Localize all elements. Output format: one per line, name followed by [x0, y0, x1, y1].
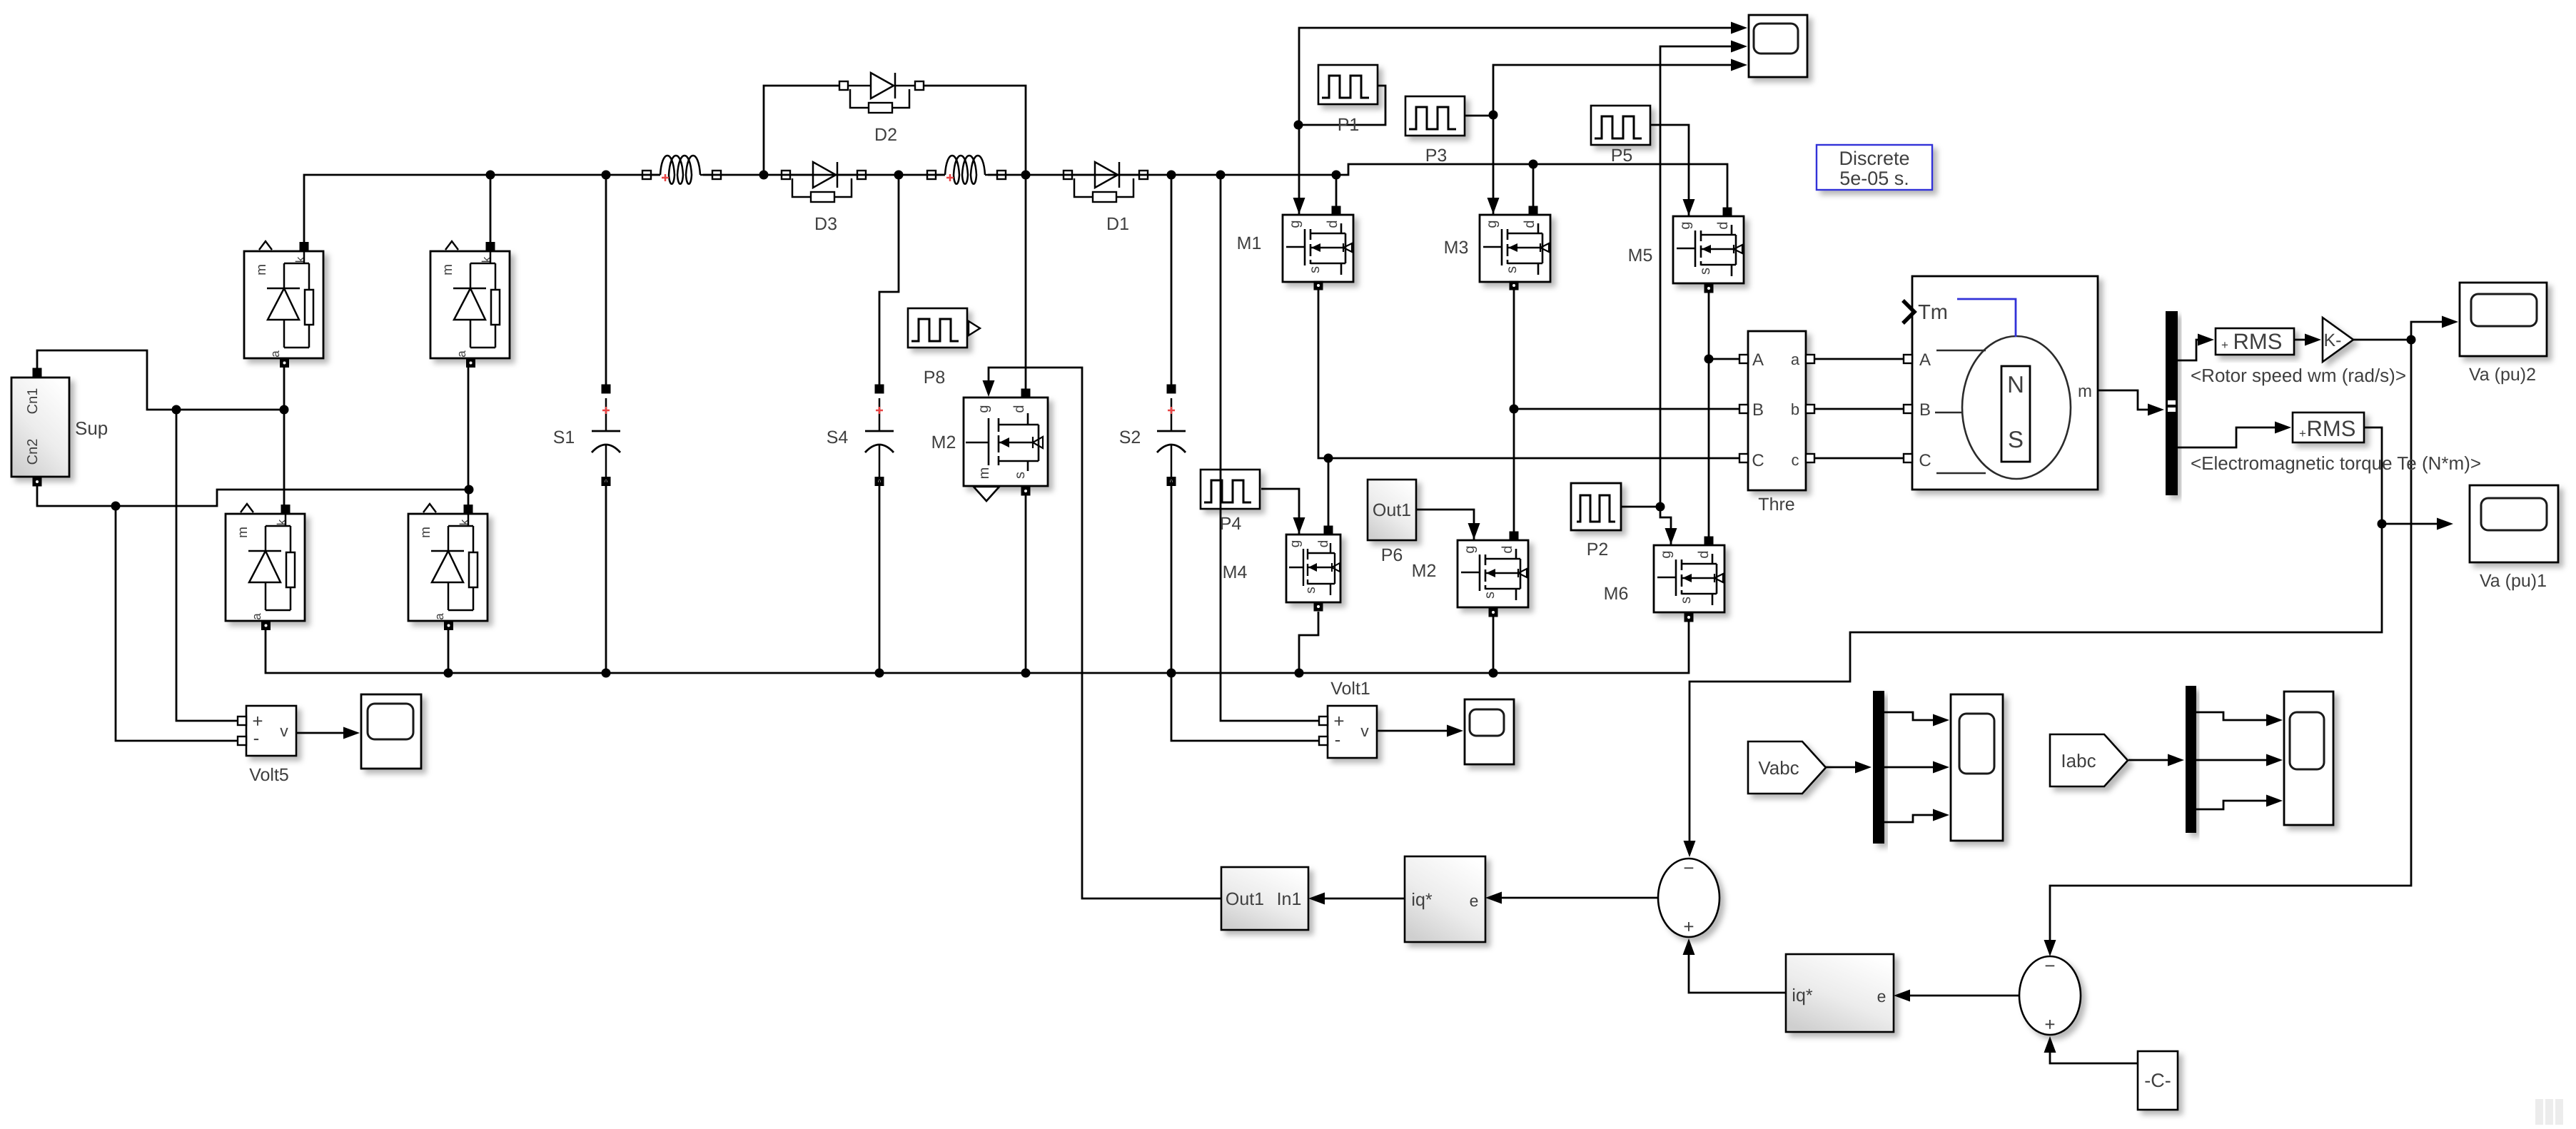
- svg-text:M4: M4: [1223, 562, 1248, 582]
- svg-text:s: s: [1012, 472, 1028, 479]
- svg-text:g: g: [1288, 540, 1303, 548]
- svg-text:D2: D2: [874, 125, 897, 145]
- svg-text:v: v: [280, 722, 288, 740]
- svg-text:S2: S2: [1119, 427, 1141, 447]
- svg-text:Va (pu)2: Va (pu)2: [2469, 365, 2536, 385]
- svg-text:s: s: [1303, 587, 1318, 594]
- svg-text:A: A: [1752, 350, 1764, 370]
- svg-text:+: +: [2221, 338, 2228, 352]
- svg-text:B: B: [1919, 400, 1931, 420]
- svg-text:5e-05 s.: 5e-05 s.: [1839, 168, 1909, 189]
- svg-text:K-: K-: [2324, 330, 2342, 350]
- svg-text:P8: P8: [924, 368, 946, 388]
- svg-text:P2: P2: [1587, 540, 1609, 560]
- svg-text:D3: D3: [814, 214, 837, 234]
- svg-text:A: A: [1919, 350, 1931, 370]
- svg-text:M1: M1: [1237, 233, 1262, 253]
- svg-text:P6: P6: [1381, 545, 1403, 565]
- svg-text:S1: S1: [553, 427, 575, 447]
- svg-text:g: g: [976, 405, 991, 412]
- svg-text:Out1: Out1: [1373, 500, 1411, 520]
- svg-text:e: e: [1877, 987, 1886, 1006]
- svg-text:M3: M3: [1444, 238, 1469, 258]
- svg-text:<Rotor speed wm (rad/s)>: <Rotor speed wm (rad/s)>: [2191, 365, 2406, 386]
- svg-text:M5: M5: [1628, 245, 1653, 265]
- svg-text:RMS: RMS: [2233, 329, 2283, 354]
- svg-text:P3: P3: [1425, 146, 1448, 166]
- svg-text:C: C: [1752, 451, 1764, 470]
- svg-text:-: -: [1335, 729, 1341, 750]
- svg-text:Tm: Tm: [1918, 301, 1948, 324]
- svg-text:Cn2: Cn2: [25, 439, 41, 465]
- svg-text:c: c: [1792, 451, 1799, 469]
- svg-text:e: e: [1470, 891, 1479, 910]
- svg-text:d: d: [1011, 405, 1027, 412]
- svg-text:m: m: [2078, 382, 2092, 401]
- svg-text:C: C: [1919, 451, 1931, 470]
- svg-text:-C-: -C-: [2144, 1070, 2171, 1091]
- svg-text:M2: M2: [931, 432, 956, 452]
- svg-text:P5: P5: [1611, 146, 1633, 166]
- svg-text:+: +: [2299, 427, 2306, 440]
- svg-text:Volt5: Volt5: [249, 765, 289, 785]
- svg-text:iq*: iq*: [1411, 890, 1432, 910]
- svg-text:Sup: Sup: [75, 417, 108, 439]
- svg-text:M2: M2: [1412, 561, 1437, 581]
- svg-text:a: a: [1791, 350, 1800, 368]
- svg-text:B: B: [1752, 400, 1764, 420]
- svg-text:Volt1: Volt1: [1330, 679, 1370, 699]
- svg-text:M6: M6: [1604, 584, 1629, 604]
- svg-text:Out1: Out1: [1226, 889, 1264, 909]
- svg-text:Va (pu)1: Va (pu)1: [2480, 571, 2547, 591]
- svg-text:iq*: iq*: [1792, 986, 1812, 1006]
- svg-text:m: m: [976, 467, 992, 480]
- svg-text:In1: In1: [1277, 889, 1302, 909]
- svg-text:Thre: Thre: [1758, 495, 1794, 515]
- svg-text:D1: D1: [1106, 214, 1129, 234]
- svg-text:N: N: [2007, 371, 2024, 398]
- svg-text:Iabc: Iabc: [2061, 750, 2096, 771]
- svg-text:-: -: [253, 727, 260, 749]
- svg-text:Cn1: Cn1: [25, 388, 41, 415]
- svg-text:RMS: RMS: [2307, 416, 2356, 441]
- svg-text:v: v: [1360, 722, 1369, 740]
- svg-text:b: b: [1791, 400, 1799, 418]
- svg-text:P1: P1: [1338, 115, 1360, 135]
- svg-text:Discrete: Discrete: [1839, 148, 1909, 169]
- svg-text:P4: P4: [1220, 514, 1242, 534]
- svg-text:d: d: [1316, 540, 1331, 548]
- svg-text:Vabc: Vabc: [1758, 757, 1799, 779]
- svg-text:S: S: [2008, 426, 2024, 452]
- svg-text:<Electromagnetic torque Te (N*: <Electromagnetic torque Te (N*m)>: [2191, 452, 2481, 474]
- svg-text:S4: S4: [827, 427, 849, 447]
